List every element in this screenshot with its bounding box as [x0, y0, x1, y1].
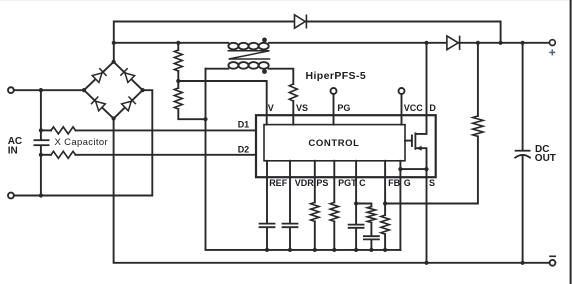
svg-text:CONTROL: CONTROL: [308, 138, 359, 149]
svg-text:VS: VS: [296, 103, 308, 113]
svg-text:PGT: PGT: [338, 178, 357, 188]
svg-text:G: G: [404, 178, 411, 188]
svg-text:VDR: VDR: [295, 178, 315, 188]
svg-text:PS: PS: [316, 178, 328, 188]
svg-text:X Capacitor: X Capacitor: [55, 137, 108, 148]
svg-text:D1: D1: [238, 120, 250, 130]
svg-text:C: C: [359, 178, 366, 188]
svg-text:HiperPFS-5: HiperPFS-5: [306, 70, 367, 82]
svg-text:PG: PG: [337, 103, 350, 113]
svg-text:V: V: [268, 103, 274, 113]
svg-text:D2: D2: [238, 144, 250, 154]
svg-text:S: S: [429, 178, 435, 188]
svg-text:OUT: OUT: [535, 153, 556, 164]
svg-text:VCC: VCC: [404, 103, 424, 113]
svg-text:FB: FB: [388, 178, 400, 188]
svg-text:IN: IN: [8, 146, 18, 157]
svg-text:REF: REF: [269, 178, 288, 188]
svg-text:D: D: [429, 103, 436, 113]
